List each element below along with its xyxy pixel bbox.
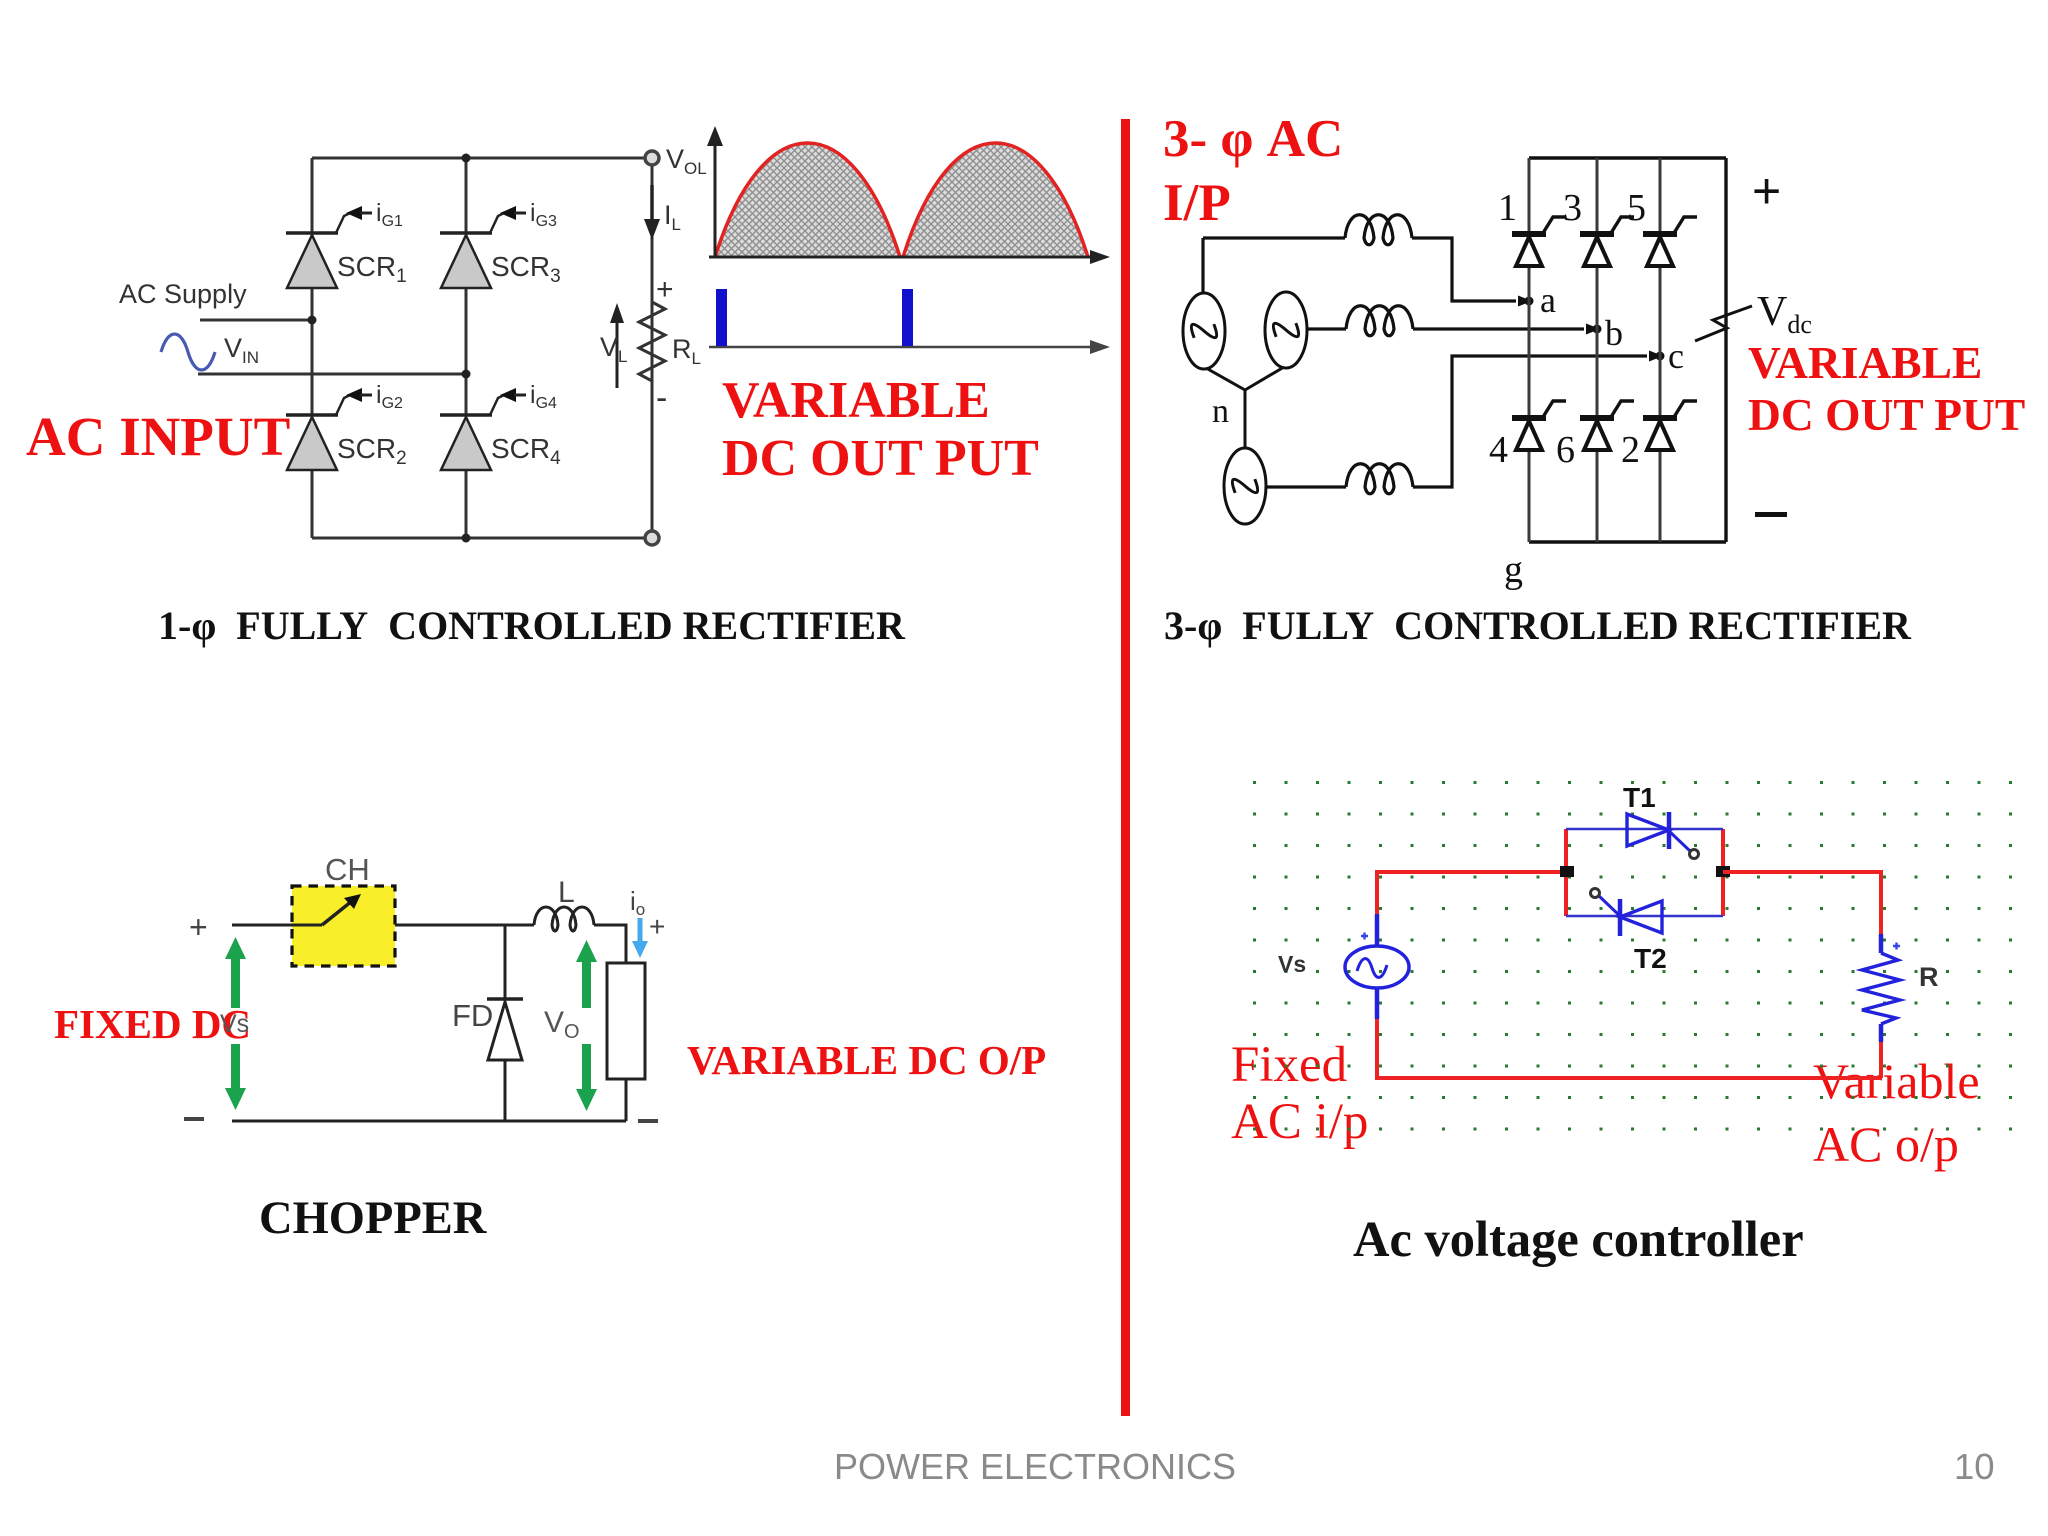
resistor R stems blue [1879, 934, 1884, 1042]
wire: controller right lower red [1879, 1042, 1883, 1078]
wire: AC supply upper lead [200, 319, 312, 322]
chopper switch box CH [292, 886, 395, 966]
label minus in [184, 1117, 204, 1121]
thyristor 3 [1580, 217, 1634, 266]
T1 gate terminal circle [1690, 850, 1699, 859]
svg-text:T1: T1 [1623, 782, 1656, 813]
arrow io [638, 918, 643, 946]
wire: bridge top bus [1529, 156, 1726, 159]
source AC sine glyph [161, 334, 215, 370]
label VARIABLE DC OUT PUT (1-phase) [722, 372, 1039, 488]
wire: phase B to node b [1413, 327, 1584, 330]
label 3-phi AC I/P [1163, 108, 1343, 235]
arrow IL load current [650, 185, 654, 226]
thyristor T2 [1599, 896, 1662, 936]
thyristor block top branch blue [1566, 828, 1723, 831]
wire: branch 2 vertical [1596, 158, 1599, 542]
thyristor T1 [1627, 812, 1690, 851]
node: left junction dot [1560, 866, 1574, 877]
svg-text:T2: T2 [1634, 943, 1667, 974]
source Vs ellipse [1345, 946, 1409, 988]
thyristor 5 [1643, 217, 1697, 266]
wire: chopper bottom bus [232, 1120, 626, 1123]
wire: phase A to riser [1412, 238, 1516, 301]
T2 gate terminal circle [1591, 889, 1600, 898]
resistor RL zigzag [639, 302, 665, 388]
waveform vertical axis [714, 140, 717, 257]
arrow Vo up [576, 940, 597, 1008]
caption 1-phase fully controlled rectifier [158, 602, 905, 649]
inductor phase A [1345, 215, 1412, 245]
node: Vout terminal [645, 151, 659, 165]
node c arrow and dot [1649, 351, 1663, 362]
svg-text:Vs: Vs [1278, 951, 1306, 977]
wire: left branch upper segment [311, 158, 314, 233]
thyristor SCR1 [286, 206, 372, 288]
arrow Vo down [576, 1044, 597, 1111]
label Variable AC o/p [1813, 1050, 1980, 1176]
source Vs plus mark [1361, 933, 1368, 940]
thyristor block right riser red [1721, 829, 1725, 916]
thyristor SCR3 [440, 206, 526, 288]
footer POWER ELECTRONICS [834, 1446, 1236, 1488]
load rectangle [607, 963, 645, 1079]
wire: controller bottom red [1377, 1019, 1881, 1078]
node: AC lower lead junction [462, 370, 471, 379]
source Vs sine [1357, 959, 1387, 978]
inductor L [534, 907, 594, 931]
resistor R plus mark [1893, 943, 1900, 950]
source phase B [1265, 292, 1307, 368]
node: right junction dot [1716, 866, 1730, 877]
dotted grid background [1246, 776, 2040, 1146]
wire: right branch lower segment [465, 468, 468, 538]
inductor phase B [1346, 306, 1413, 336]
thyristor 1 [1512, 217, 1566, 266]
gate pulse 1 [716, 289, 727, 346]
arrow VL voltage [616, 315, 619, 388]
Vdc pointer zigzag [1695, 306, 1752, 341]
source Vs stems blue [1375, 914, 1380, 1019]
waveform hump 1 red outline [715, 143, 900, 257]
thyristor 6 [1580, 401, 1634, 450]
thyristor block left riser red [1564, 829, 1568, 916]
label Fixed AC i/p [1231, 1037, 1368, 1151]
waveform hump 2 fill [903, 143, 1088, 257]
thyristor 4 [1512, 401, 1566, 450]
source phase A [1183, 293, 1225, 369]
wire: right branch upper segment [465, 158, 468, 233]
thyristor SCR4 [440, 388, 526, 470]
waveform hump 2 red outline [903, 143, 1088, 257]
wire: phase C riser to node c [1413, 356, 1647, 487]
source phase C [1224, 448, 1266, 524]
caption Ac voltage controller [1353, 1210, 1804, 1268]
wire: phase A top lead vertical [1201, 238, 1204, 293]
wire: phase C lead [1266, 485, 1346, 488]
wire: branch 3 vertical [1659, 158, 1662, 542]
wire: Y junction phase A [1206, 368, 1245, 390]
wire: 1ph bottom bus [312, 537, 652, 540]
caption CHOPPER [259, 1192, 486, 1245]
red divider line [1121, 119, 1130, 1416]
wire: bridge right bus [1724, 158, 1727, 542]
wire: phase B lead [1307, 327, 1346, 330]
wire: chopper top right [594, 925, 626, 963]
label VARIABLE DC O/P [687, 1036, 1046, 1084]
wire: chopper top left [232, 924, 292, 927]
gate pulse 2 [902, 289, 913, 346]
wire: FD branch upper [504, 925, 507, 999]
thyristor block bottom branch blue [1566, 915, 1723, 918]
wire: phase A top horizontal [1203, 236, 1345, 239]
wire: branch 1 vertical [1528, 158, 1531, 542]
freewheeling diode FD [487, 999, 523, 1060]
node: top bus / SCR3 branch junction [462, 154, 471, 163]
arrow fixed dc down [225, 1044, 246, 1110]
node b arrow and dot [1586, 324, 1600, 335]
node: AC upper lead junction [308, 316, 317, 325]
arrow fixed dc up [225, 937, 246, 1008]
label AC INPUT [26, 405, 290, 468]
wire: load branch vertical [651, 165, 654, 531]
waveform voltage axis horizontal [709, 256, 1096, 259]
wire: controller top red [1377, 872, 1566, 914]
wire: neutral stem [1244, 390, 1247, 448]
label minus dc [1755, 512, 1787, 517]
wire: chopper top middle [395, 924, 534, 927]
wire: FD branch lower [504, 1060, 507, 1121]
switch arm [292, 924, 322, 927]
node: bottom terminal [645, 531, 659, 545]
gate pulse axis [709, 346, 1096, 349]
caption 3-phase fully controlled rectifier [1164, 602, 1911, 649]
wire: bridge bottom bus [1529, 540, 1726, 543]
label FIXED DC [54, 1000, 251, 1048]
wire: controller right red [1723, 872, 1881, 934]
waveform hump 1 fill [715, 143, 900, 257]
wire: left branch lower segment [311, 468, 314, 538]
footer page number 10 [1954, 1446, 1995, 1488]
label VARIABLE DC OUT PUT (3-phase) [1748, 337, 2025, 442]
wire: load bottom stem [625, 1079, 628, 1121]
wire: AC supply lower lead [198, 373, 466, 376]
wire: 1ph top bus [312, 157, 652, 160]
inductor phase C [1346, 464, 1413, 494]
wire: left branch middle segment [311, 286, 314, 415]
thyristor 2 [1643, 401, 1697, 450]
label minus out [638, 1119, 658, 1123]
svg-text:R: R [1919, 962, 1939, 992]
wire: right branch middle segment [465, 286, 468, 415]
thyristor SCR2 [286, 388, 372, 470]
resistor R zigzag [1862, 953, 1900, 1024]
wire: Y junction phase B [1245, 367, 1284, 390]
node a arrow and dot [1518, 296, 1532, 307]
node: bottom bus / SCR4 branch junction [462, 534, 471, 543]
